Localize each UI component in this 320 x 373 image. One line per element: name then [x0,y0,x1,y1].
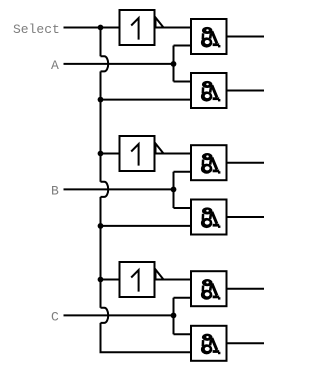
wire bus hop over C [101,308,109,323]
svg-text:A: A [51,58,59,73]
junction dot bus-to-inverter U3 [98,277,104,283]
junction dot bus to AND U2B [98,223,104,229]
junction dot bus to AND U1B [98,97,104,103]
wire AND U3A output [228,288,265,290]
junction dot C branch [171,313,177,319]
junction dot A branch [171,61,177,67]
wire B input lead [64,188,174,190]
wire AND U1A output [228,36,265,38]
wire bus to inverter U2 input [101,153,119,155]
wire branch to AND U2A lower input [174,171,191,173]
wire AND U3B output [228,342,265,344]
wire bus to inverter U1 input [101,27,119,29]
wire branch to AND U3A lower input [174,297,191,299]
wire C branch vertical [173,298,175,335]
wire select bus segment 3 [100,197,102,308]
inverter U2 negation flag [156,144,164,154]
inverter U2 box ("1") [120,136,155,171]
wire branch to AND U1A lower input [174,45,191,47]
svg-text:C: C [51,310,59,325]
wire AND U2A output [228,162,265,164]
inverter U3 box ("1") [120,262,155,297]
inverter U1 negation flag [156,18,164,28]
inverter U3 negation flag [156,270,164,280]
wire bus to inverter U3 input [101,279,119,281]
svg-text:B: B [51,184,59,199]
junction dot B branch [171,187,177,193]
wire inverter U3 output to AND gate [156,279,191,281]
wire branch to AND U1B upper input [174,81,191,83]
wire C input lead [64,314,174,316]
wire Select lead [64,27,101,29]
wire inverter U1 output to AND gate [156,27,191,29]
wire select bus segment 1 [100,28,102,57]
wire bus hop over A [101,56,109,71]
wire branch to AND U2B upper input [174,207,191,209]
junction dot bus-to-inverter U2 [98,151,104,157]
wire branch to AND U3B upper input [174,333,191,335]
wire bus hop over B [101,182,109,197]
AND gate U3A box ("&") [191,271,227,306]
wire AND U1B output [228,90,265,92]
wire AND U2B output [228,216,265,218]
wire inverter U2 output to AND gate [156,153,191,155]
wire bus corner to AND U3B lower input [101,323,191,352]
wire A branch vertical [173,46,175,82]
AND gate U2B box ("&") [191,200,227,235]
AND gate U1B box ("&") [191,73,227,108]
AND gate U2A box ("&") [191,145,227,180]
wire A input lead [64,63,174,65]
wire bus to AND U2B lower input [101,225,191,227]
inverter U1 box ("1") [120,10,155,45]
wire bus to AND U1B lower input [101,99,191,101]
svg-text:Select: Select [13,22,60,37]
junction dot bus-to-inverter U1 [98,25,104,31]
wire B branch vertical [173,172,175,208]
AND gate U3B box ("&") [191,326,227,361]
AND gate U1A box ("&") [191,19,227,54]
wire select bus segment 2 [100,71,102,181]
